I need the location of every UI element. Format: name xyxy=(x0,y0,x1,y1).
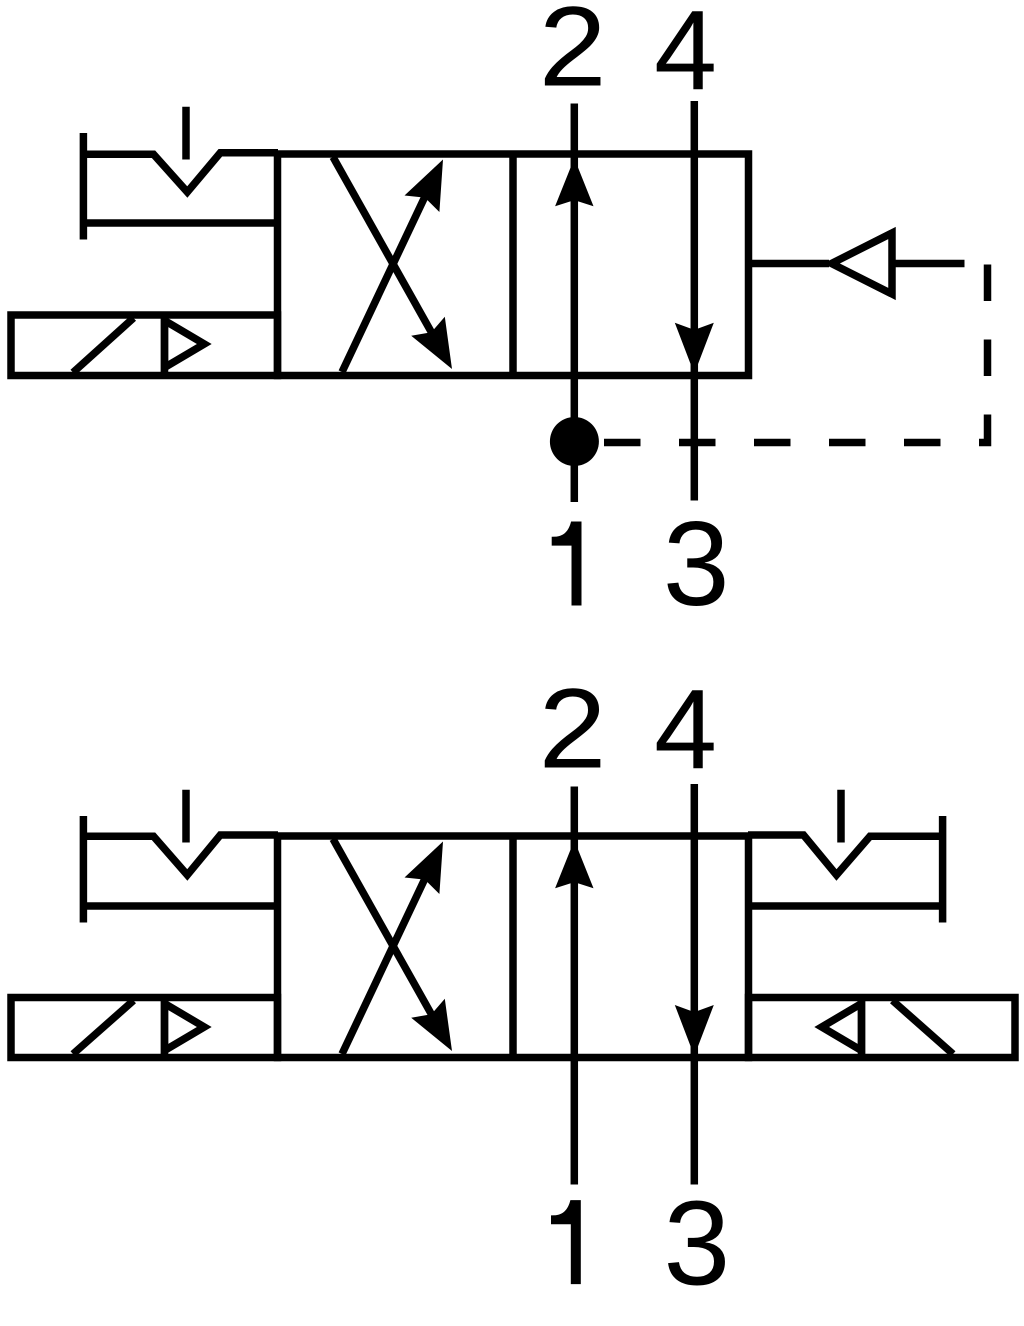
svg-text:4: 4 xyxy=(654,666,717,792)
svg-text:2: 2 xyxy=(539,0,607,110)
svg-text:2: 2 xyxy=(539,666,607,792)
detent actuator V1 left: pin xyxy=(182,107,190,160)
svg-text:3: 3 xyxy=(663,497,730,631)
pilot lead line V1 right xyxy=(893,260,965,268)
valve V2 body xyxy=(278,836,749,1058)
detent actuator V2 right: pin xyxy=(837,790,845,843)
detent actuator V1 left: bottom line xyxy=(80,219,278,227)
solenoid V2 left: pilot triangle xyxy=(165,1004,205,1051)
valve V2 crossed path arrow (up-right) xyxy=(342,842,443,1055)
valve V1 straight path arrow up (port 2) xyxy=(555,104,593,503)
valve V2 straight path arrow up (port 2) xyxy=(555,787,593,1185)
valve V1 crossed path arrow (down-right) xyxy=(333,157,452,369)
valve V1 crossed path arrow (up-right) xyxy=(342,160,443,373)
solenoid V1 left: divider xyxy=(161,315,169,376)
svg-text:4: 4 xyxy=(654,0,717,113)
junction dot on port 1 line xyxy=(550,417,599,466)
detent actuator V2 right: notched top line xyxy=(748,835,946,875)
pilot dashed control line xyxy=(575,265,988,443)
detent actuator V2 left: pin xyxy=(182,790,190,843)
valve V2 straight path arrow down (port 4) xyxy=(675,784,714,1185)
solenoid V2 right: divider xyxy=(858,998,866,1058)
solenoid V1 left: box xyxy=(11,315,278,376)
solenoid V2 right: diagonal xyxy=(893,1001,954,1055)
valve V2 crossed path arrow (down-right) xyxy=(333,839,452,1051)
valve V1 body xyxy=(278,154,749,376)
detent actuator V2 right: bottom line xyxy=(748,902,946,910)
valve V1 straight path arrow down (port 4) xyxy=(675,101,714,501)
detent actuator V2 right: end cap xyxy=(939,816,947,923)
solenoid V2 right: box xyxy=(749,998,1016,1058)
port label 1 (V2) xyxy=(551,1200,581,1284)
solenoid V2 left: divider xyxy=(161,998,169,1058)
svg-text:3: 3 xyxy=(664,1177,731,1311)
solenoid V1 left: diagonal xyxy=(73,318,134,373)
detent actuator V2 left: end cap xyxy=(80,816,88,923)
port label 1 (V1) xyxy=(552,522,582,606)
solenoid V1 left: pilot triangle xyxy=(165,321,205,368)
detent actuator V1 left: notched top line xyxy=(80,153,278,192)
detent actuator V2 left: bottom line xyxy=(80,902,278,910)
solenoid V2 right: pilot triangle xyxy=(822,1004,862,1051)
valve V2 box divider xyxy=(509,836,517,1058)
detent actuator V2 left: notched top line xyxy=(80,835,278,875)
pilot triangle V1 right xyxy=(832,233,893,294)
solenoid V2 left: diagonal xyxy=(73,1001,134,1055)
valve V1 box divider xyxy=(509,154,517,376)
pilot line V1 right xyxy=(749,260,830,268)
detent actuator V1 left: end cap xyxy=(80,133,88,240)
solenoid V2 left: box xyxy=(11,998,278,1058)
